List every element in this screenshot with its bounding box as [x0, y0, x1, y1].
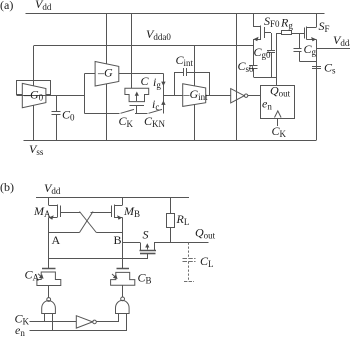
svg-text:Vdda0: Vdda0	[146, 27, 171, 42]
svg-text:(b): (b)	[0, 180, 14, 194]
svg-text:SF: SF	[319, 19, 330, 34]
svg-text:Cint: Cint	[176, 53, 194, 68]
svg-text:CK: CK	[272, 124, 287, 139]
svg-text:B: B	[114, 233, 122, 247]
svg-text:(a): (a)	[0, 0, 13, 12]
svg-text:Vdd: Vdd	[35, 0, 52, 12]
svg-text:Cs0: Cs0	[238, 59, 255, 74]
svg-text:Vss: Vss	[29, 142, 44, 157]
svg-text:Cs: Cs	[324, 61, 336, 76]
svg-text:C0: C0	[62, 108, 75, 123]
svg-text:C: C	[141, 74, 150, 88]
svg-text:MB: MB	[123, 204, 140, 219]
svg-text:ic: ic	[152, 97, 159, 112]
svg-text:CL: CL	[200, 254, 214, 269]
svg-text:S: S	[143, 228, 149, 242]
svg-text:MA: MA	[33, 204, 51, 219]
svg-text:CK: CK	[119, 114, 134, 129]
svg-text:CB: CB	[138, 271, 152, 286]
svg-text:Vdd: Vdd	[44, 181, 61, 196]
svg-text:Rg: Rg	[280, 16, 293, 31]
svg-text:ig: ig	[153, 75, 161, 90]
svg-text:–G: –G	[97, 66, 113, 80]
svg-text:A: A	[52, 233, 61, 247]
svg-text:RL: RL	[176, 212, 190, 227]
svg-text:Cg0: Cg0	[254, 45, 272, 60]
svg-text:SF0: SF0	[264, 14, 280, 29]
svg-text:Qout: Qout	[195, 226, 216, 241]
svg-text:CKN: CKN	[144, 114, 166, 129]
svg-text:Cg: Cg	[304, 42, 317, 57]
svg-text:Vdda: Vdda	[333, 33, 350, 48]
svg-text:CA: CA	[25, 268, 40, 283]
